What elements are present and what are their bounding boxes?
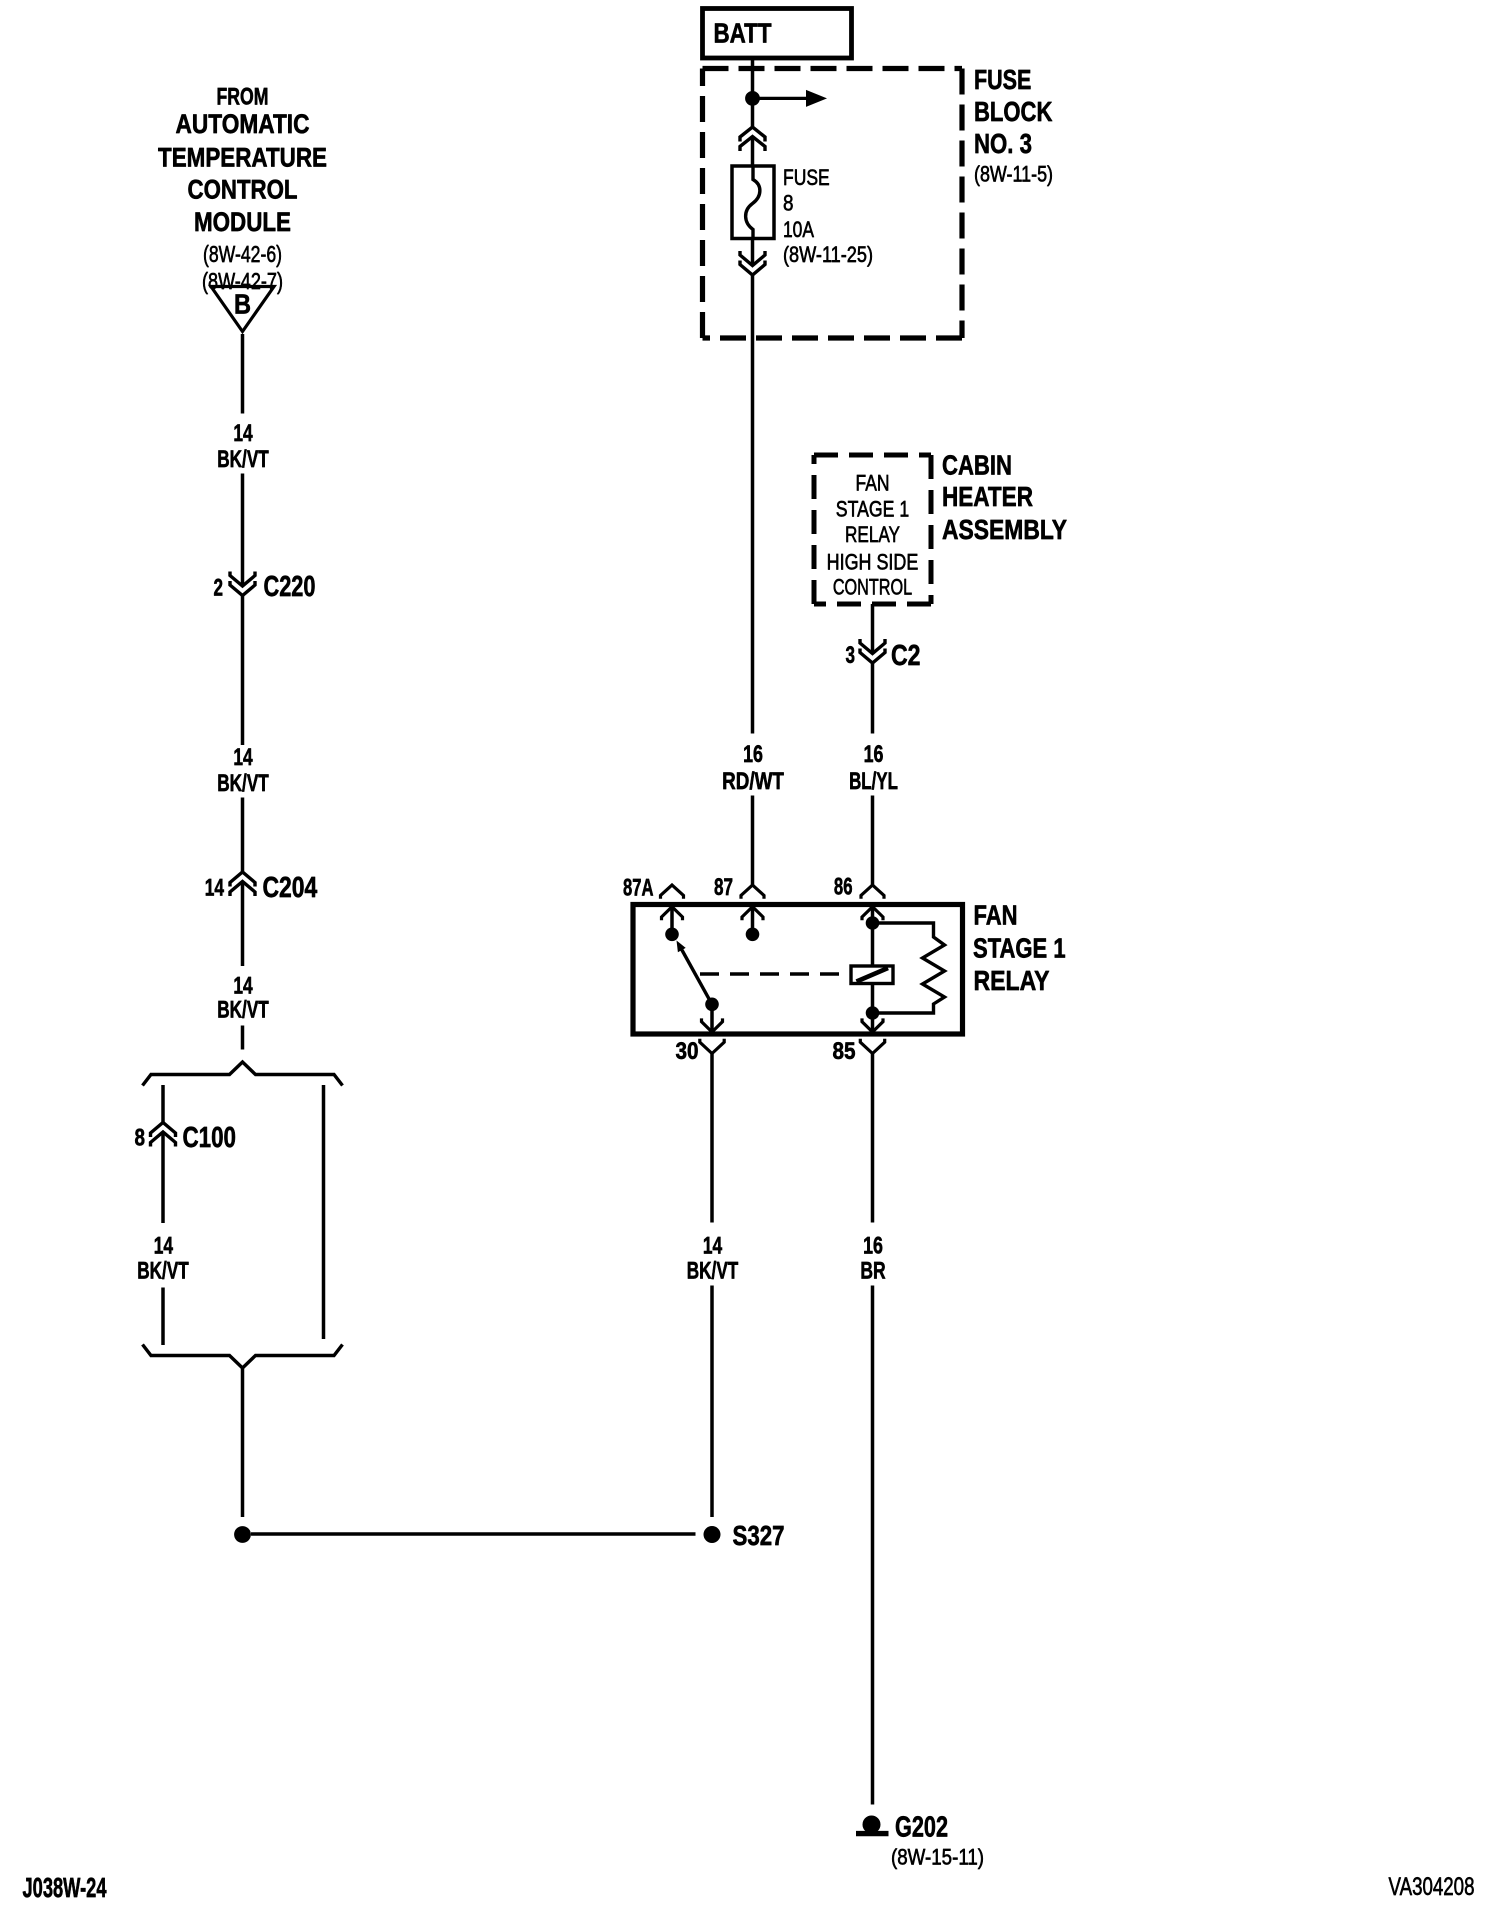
svg-text:STAGE 1: STAGE 1 [973, 932, 1066, 963]
svg-text:16: 16 [743, 741, 763, 768]
connector C100 chevrons [151, 1123, 176, 1147]
svg-text:85: 85 [833, 1038, 856, 1065]
svg-text:TEMPERATURE: TEMPERATURE [158, 142, 327, 172]
pin 87A terminal chevrons and stub [661, 885, 684, 934]
svg-text:2: 2 [214, 574, 224, 601]
svg-text:14: 14 [703, 1233, 723, 1260]
label 14 BK/VT (below C204) [217, 973, 269, 1024]
wire left branch lower [161, 1288, 165, 1346]
wire C204 down [241, 882, 245, 967]
svg-text:14: 14 [233, 420, 253, 447]
svg-text:FAN: FAN [974, 900, 1018, 931]
svg-text:FROM: FROM [217, 84, 269, 111]
wire BK/VT to connector C220 [241, 474, 245, 587]
svg-text:AUTOMATIC: AUTOMATIC [176, 109, 310, 139]
wire bundle right branch [322, 1085, 326, 1339]
svg-text:30: 30 [676, 1038, 699, 1065]
fuse 8 element [732, 166, 774, 239]
node pin 30 [705, 998, 719, 1012]
connector chevrons fuse block input [740, 127, 765, 151]
label 16 BL/YL [849, 741, 898, 795]
svg-text:VA304208: VA304208 [1389, 1873, 1475, 1901]
junction node in fuse block [745, 91, 760, 106]
svg-text:87: 87 [714, 874, 733, 901]
svg-text:14: 14 [233, 744, 253, 771]
svg-text:BATT: BATT [714, 18, 772, 49]
wire pin 30 down [710, 1054, 714, 1223]
pin 30 terminal chevrons and stub [700, 1004, 724, 1053]
svg-text:(8W-42-6): (8W-42-6) [203, 241, 282, 267]
svg-text:10A: 10A [783, 217, 814, 242]
svg-text:RELAY: RELAY [845, 522, 900, 547]
svg-text:C100: C100 [183, 1122, 237, 1154]
wire cabin heater to connector C2 [871, 604, 875, 654]
wire fuse to output chevrons [751, 239, 755, 266]
svg-text:J038W-24: J038W-24 [23, 1872, 107, 1903]
wire BATT box to junction [751, 58, 755, 127]
label G202 (8W-15-11) [891, 1811, 984, 1869]
node pin 85 [866, 1006, 880, 1020]
relay coil box [851, 966, 893, 984]
svg-text:FUSE: FUSE [783, 165, 830, 190]
connector C220 chevrons [230, 572, 255, 596]
relay coil control dashed line [700, 972, 851, 975]
svg-text:B: B [234, 289, 251, 320]
svg-text:MODULE: MODULE [194, 207, 291, 237]
svg-text:BL/YL: BL/YL [849, 768, 898, 795]
label 14 BK/VT (pin 30 wire) [687, 1233, 739, 1285]
splice node S327 [704, 1526, 721, 1543]
svg-text:(8W-15-11): (8W-15-11) [891, 1844, 984, 1869]
svg-text:14: 14 [154, 1233, 174, 1260]
wire C220 down [241, 596, 245, 746]
battery feed box BATT [703, 9, 852, 59]
label FAN STAGE 1 RELAY [973, 900, 1066, 997]
svg-text:BK/VT: BK/VT [137, 1258, 189, 1285]
wire chevrons to fuse [751, 137, 755, 169]
wire BR to ground [871, 1286, 875, 1805]
svg-text:C204: C204 [263, 872, 318, 904]
svg-text:BK/VT: BK/VT [217, 770, 269, 797]
svg-text:C2: C2 [891, 640, 921, 672]
wire BL/YL to relay pin 86 [871, 796, 875, 886]
svg-text:BK/VT: BK/VT [217, 446, 269, 473]
bundle brace top [143, 1062, 343, 1086]
label 14 BK/VT (below C220) [217, 744, 269, 797]
node pin 87A [665, 928, 679, 942]
node pin 86 [866, 916, 880, 930]
label 14 BK/VT (C100 branch) [137, 1233, 189, 1285]
svg-text:C220: C220 [264, 571, 316, 603]
off-page connector triangle B [211, 287, 274, 332]
pin 87 terminal chevrons and stub [741, 885, 764, 934]
wire BK/VT to connector C204 [241, 798, 245, 873]
svg-text:(8W-11-25): (8W-11-25) [783, 242, 873, 267]
wire pin 86 to pin 85 through coil [871, 923, 875, 1013]
wire pin 85 down [871, 1054, 875, 1223]
svg-text:CONTROL: CONTROL [833, 574, 912, 599]
connector chevrons fuse block output [740, 251, 765, 275]
label 14 BK/VT (ATC module wire) [217, 420, 269, 473]
svg-text:FAN: FAN [856, 470, 890, 495]
svg-text:STAGE 1: STAGE 1 [836, 497, 909, 522]
wire bundle left branch upper [161, 1085, 165, 1123]
label CABIN HEATER ASSEMBLY [942, 449, 1067, 544]
wire triangle B down [241, 334, 245, 414]
relay K1 box FAN STAGE 1 RELAY [633, 905, 963, 1035]
wire fuse block to label 16 RD/WT [751, 275, 755, 734]
label 16 RD/WT [722, 741, 784, 795]
wire C2 to label 16 BL/YL [871, 663, 875, 734]
connector C2 chevrons [860, 639, 885, 663]
bundle brace bottom [143, 1345, 343, 1369]
svg-text:NO. 3: NO. 3 [974, 128, 1032, 159]
svg-text:CABIN: CABIN [942, 449, 1012, 480]
wire brace to junction [241, 1368, 245, 1517]
fuse block no.3 dashed box [703, 69, 963, 339]
relay coil suppression resistor [879, 923, 945, 1013]
label FAN STAGE 1 RELAY HIGH SIDE CONTROL (inside box) [827, 470, 919, 599]
pin 86 terminal chevrons and stub [861, 885, 884, 923]
svg-text:RELAY: RELAY [974, 965, 1050, 996]
wire C100 down [161, 1132, 165, 1223]
svg-text:S327: S327 [733, 1520, 785, 1551]
svg-text:(8W-11-5): (8W-11-5) [974, 161, 1053, 186]
svg-text:14: 14 [205, 875, 225, 902]
svg-text:BK/VT: BK/VT [217, 996, 269, 1023]
svg-text:BLOCK: BLOCK [974, 96, 1052, 127]
relay switch arm 30 to 87A [677, 941, 713, 1005]
svg-text:HEATER: HEATER [942, 481, 1033, 512]
junction node left branch [234, 1526, 251, 1543]
svg-text:BR: BR [860, 1258, 885, 1285]
svg-text:3: 3 [846, 642, 856, 669]
svg-text:G202: G202 [895, 1811, 948, 1843]
label 16 BR [860, 1233, 885, 1285]
label FUSE BLOCK NO. 3 (8W-11-5) [974, 64, 1053, 187]
svg-text:16: 16 [864, 741, 884, 768]
wire BK/VT to splice S327 [710, 1286, 714, 1518]
wire BK/VT to bundle brace [241, 1026, 245, 1050]
svg-text:8: 8 [135, 1124, 146, 1151]
svg-text:RD/WT: RD/WT [722, 768, 784, 795]
node pin 87 [746, 928, 760, 942]
cabin heater assembly dashed box [814, 455, 931, 604]
wire RD/WT to relay pin 87 [751, 796, 755, 886]
svg-text:HIGH SIDE: HIGH SIDE [827, 549, 919, 574]
svg-text:8: 8 [783, 190, 794, 215]
svg-text:CONTROL: CONTROL [188, 174, 298, 204]
arrow feed to other circuits [753, 90, 828, 107]
label FUSE 8 10A (8W-11-25) [783, 165, 873, 267]
svg-text:ASSEMBLY: ASSEMBLY [942, 514, 1067, 545]
svg-text:87A: 87A [623, 875, 654, 902]
svg-text:16: 16 [863, 1233, 883, 1260]
svg-text:BK/VT: BK/VT [687, 1258, 739, 1285]
svg-text:86: 86 [834, 874, 853, 901]
label FROM AUTOMATIC TEMPERATURE CONTROL MODULE [158, 84, 327, 294]
connector C204 chevrons [230, 872, 255, 896]
wire splice horizontal [251, 1532, 696, 1535]
pin 85 terminal chevrons and stub [860, 1013, 884, 1054]
ground G202 symbol [856, 1816, 889, 1834]
svg-text:FUSE: FUSE [974, 64, 1031, 95]
